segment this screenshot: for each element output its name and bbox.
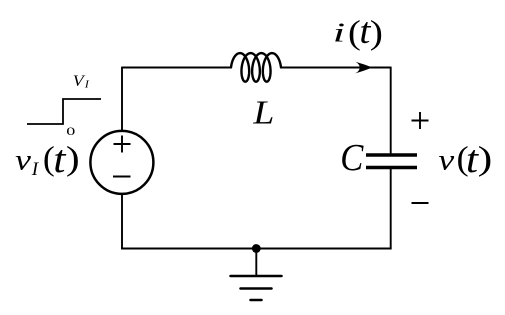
ground bar 2 [241,287,272,290]
svg-text:I: I [84,79,91,90]
wire left vertical lower [121,194,123,250]
capacitor C1 top plate [366,153,417,156]
ground bar 3 [251,299,262,302]
voltage source V1 circle [90,131,153,194]
svg-text:I: I [31,159,40,180]
wire bottom horizontal [121,248,391,250]
svg-text:L: L [252,93,274,131]
label i(t) [333,12,383,52]
svg-text:): ) [478,139,493,177]
svg-text:V: V [73,72,86,90]
step waveform symbol [27,99,101,124]
capacitor C1 bottom plate [366,166,417,169]
voltage source minus sign [113,176,131,178]
wire left vertical upper [121,67,123,132]
svg-text:): ) [370,13,383,51]
ground bar 1 [231,275,282,278]
voltage source plus sign [114,136,131,153]
wire right vertical upper [390,67,392,154]
wire right vertical lower [390,168,392,250]
label vI(t) [15,138,80,182]
label v(t) [438,138,492,182]
junction node dot [252,244,261,253]
svg-text:): ) [66,140,80,177]
svg-text:C: C [340,137,364,179]
wire top-left horizontal [122,67,231,69]
svg-text:0: 0 [66,125,75,138]
capacitor minus sign [412,202,429,204]
svg-text:v: v [438,144,454,177]
ground stub wire [255,249,257,277]
inductor L1 coil [231,53,281,82]
step label VI [73,72,91,90]
capacitor plus sign [412,112,429,129]
wire top-right horizontal [281,67,391,69]
svg-text:i: i [333,18,345,49]
current arrow i(t) head [355,62,373,74]
svg-text:v: v [15,144,31,177]
